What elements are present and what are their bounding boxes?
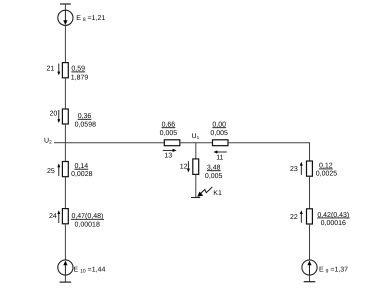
source E9 circle: [302, 260, 317, 275]
source E10 arrow (up): [64, 265, 66, 275]
resistor R23: [307, 161, 313, 176]
svg-text:0,0598: 0,0598: [75, 122, 97, 129]
wire R11 to right corner: [228, 142, 310, 144]
resistor R21: [62, 63, 68, 78]
resistor R24: [62, 209, 68, 224]
svg-text:25: 25: [47, 168, 55, 175]
wire R22 to E9: [309, 224, 311, 260]
svg-text:E 9 =1,37: E 9 =1,37: [319, 267, 348, 275]
wire E9 to bottom bar: [309, 275, 311, 282]
resistor R22: [307, 209, 313, 224]
current arrow I12 (down): [187, 161, 189, 170]
svg-text:23: 23: [290, 166, 298, 173]
resistor R13: [164, 140, 180, 146]
resistor R20: [62, 109, 68, 124]
wire R24 to E10: [64, 224, 66, 260]
switch K1 actuation arrow: [201, 187, 213, 194]
source E10 terminal bar: [60, 281, 72, 283]
svg-text:0,005: 0,005: [160, 130, 178, 137]
wire R23 to R22: [309, 176, 311, 209]
svg-text:U1: U1: [192, 133, 200, 140]
svg-text:E 8 =1,21: E 8 =1,21: [76, 15, 105, 23]
current arrow I11 (left): [217, 151, 227, 153]
source E9 arrow (up): [309, 265, 311, 275]
svg-text:12: 12: [180, 164, 188, 171]
svg-text:0,005: 0,005: [210, 130, 228, 137]
current arrow I22 (up): [300, 213, 302, 223]
right vertical wire corner to R23: [309, 142, 311, 161]
wire R13 to node U1: [180, 142, 213, 144]
svg-text:0,0028: 0,0028: [71, 171, 93, 178]
resistor R11: [213, 140, 229, 146]
source E10 circle: [58, 260, 73, 275]
svg-text:24: 24: [49, 213, 57, 220]
wire R12 to switch terminal: [195, 174, 197, 197]
wire E10 to bottom bar: [64, 275, 66, 282]
switch terminal bar: [191, 197, 200, 199]
current arrow I20 (down): [58, 110, 60, 120]
wire top bar to E8 circle: [64, 4, 66, 10]
resistor R25: [62, 162, 68, 177]
svg-text:0,005: 0,005: [205, 173, 223, 180]
wire R20 to node U2 and on to R25: [64, 124, 66, 162]
svg-text:22: 22: [290, 214, 298, 221]
wire U1 down to R12: [195, 143, 197, 159]
svg-text:0,00018: 0,00018: [75, 221, 100, 228]
svg-text:11: 11: [216, 155, 223, 162]
current arrow I24 (up): [58, 213, 60, 223]
svg-text:13: 13: [164, 153, 172, 160]
wire R21 to R20: [64, 78, 66, 109]
current arrow I13 (right): [163, 149, 174, 151]
main horizontal wire U2 to R13: [65, 142, 164, 144]
svg-text:0,00016: 0,00016: [321, 220, 346, 227]
current arrow I25 (up): [58, 166, 60, 176]
current arrow I21 (down): [58, 64, 60, 73]
wire R25 to R24: [64, 177, 66, 209]
svg-text:E 10 =1,44: E 10 =1,44: [74, 267, 106, 275]
current arrow I23 (up): [300, 164, 302, 175]
svg-text:20: 20: [50, 110, 58, 117]
svg-text:21: 21: [47, 66, 55, 73]
resistor R12: [193, 159, 199, 175]
wire E8 to R21: [64, 25, 66, 62]
node U2 left stub wire: [54, 142, 65, 144]
svg-text:1,879: 1,879: [71, 74, 89, 81]
source E8 arrow (down): [64, 10, 66, 20]
svg-text:K1: K1: [213, 190, 222, 197]
source E8 terminal bar: [60, 3, 71, 5]
source E9 terminal bar: [304, 281, 316, 283]
source E8 circle: [58, 10, 73, 25]
svg-text:0,0025: 0,0025: [316, 171, 338, 178]
svg-text:U2: U2: [44, 137, 52, 144]
